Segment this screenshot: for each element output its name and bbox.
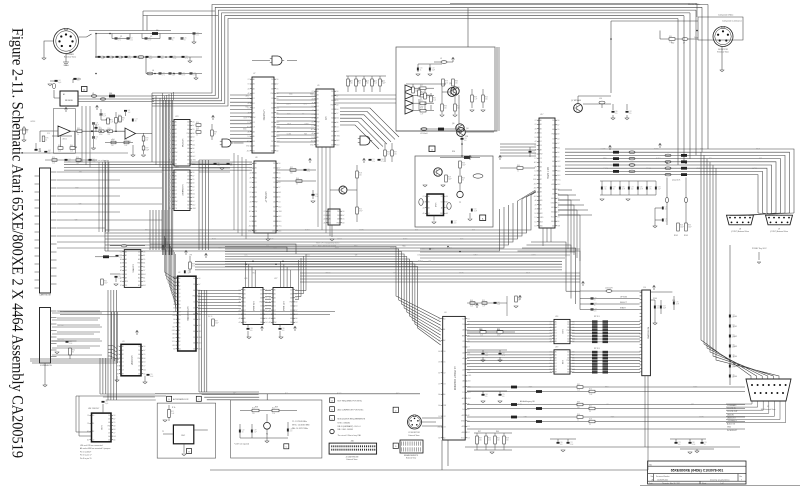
- svg-text:A7: A7: [552, 160, 554, 163]
- svg-text:R6 33: R6 33: [208, 316, 212, 318]
- svg-text:Quad 4.7k: Quad 4.7k: [672, 180, 680, 182]
- svg-text:Q7 MPSA06: Q7 MPSA06: [571, 99, 581, 102]
- svg-text:220: 220: [252, 413, 255, 415]
- svg-text:A1: A1: [540, 123, 542, 126]
- svg-text:U19: U19: [555, 347, 558, 349]
- svg-text:MODULATOR REQUIREMENTS: MODULATOR REQUIREMENTS: [338, 417, 366, 420]
- svg-text:220: 220: [454, 223, 457, 225]
- svg-text:D6: D6: [248, 98, 250, 100]
- svg-text:A7: A7: [331, 130, 333, 133]
- svg-text:R44: R44: [488, 438, 491, 440]
- svg-text:U34 74SC147: U34 74SC147: [88, 408, 99, 410]
- svg-text:.1uF: .1uF: [103, 116, 106, 118]
- svg-text:D3: D3: [337, 215, 339, 217]
- svg-text:R57: R57: [478, 431, 481, 433]
- svg-text:D7: D7: [312, 125, 314, 127]
- svg-text:PAL: 14.18757 MHz: PAL: 14.18757 MHz: [292, 427, 308, 430]
- svg-text:AUD1: AUD1: [305, 253, 310, 256]
- svg-text:C19: C19: [173, 56, 176, 58]
- svg-text:R64: R64: [517, 165, 520, 167]
- svg-text:D5: D5: [462, 375, 464, 377]
- svg-text:D5: D5: [336, 100, 338, 102]
- svg-text:ADD JUMPER W7 FOR NTSC: ADD JUMPER W7 FOR NTSC: [338, 408, 364, 411]
- svg-text:220: 220: [506, 440, 509, 442]
- svg-text:Color: Color: [694, 37, 699, 39]
- svg-text:D0: D0: [540, 133, 542, 135]
- svg-text:D7: D7: [170, 204, 172, 206]
- svg-text:U17: U17: [540, 114, 543, 116]
- svg-text:R82: R82: [577, 384, 580, 386]
- svg-text:RW: RW: [244, 322, 247, 324]
- svg-text:10pF: 10pF: [663, 308, 667, 310]
- svg-text:AN0: AN0: [289, 92, 292, 95]
- svg-text:47uF: 47uF: [182, 75, 186, 77]
- svg-text:O2: O2: [443, 416, 445, 418]
- svg-text:A1: A1: [92, 422, 94, 425]
- svg-text:A13: A13: [551, 206, 554, 209]
- svg-text:A8: A8: [273, 215, 275, 218]
- svg-text:C73: C73: [631, 187, 634, 189]
- svg-text:D2: D2: [175, 141, 177, 143]
- svg-text:A6: A6: [540, 203, 542, 206]
- svg-text:O2: O2: [169, 121, 171, 123]
- svg-text:A0: A0: [540, 119, 542, 122]
- svg-text:O2: O2: [253, 122, 255, 124]
- svg-text:C39: C39: [254, 430, 257, 432]
- svg-text:R11: R11: [171, 411, 174, 413]
- svg-text:D2: D2: [535, 221, 537, 223]
- svg-text:R46: R46: [296, 178, 299, 180]
- svg-text:100: 100: [457, 108, 460, 110]
- svg-text:4050: 4050: [118, 121, 122, 123]
- svg-text:O2: O2: [273, 182, 275, 184]
- svg-text:.1uF: .1uF: [217, 165, 220, 167]
- svg-text:R60: R60: [387, 152, 390, 154]
- svg-text:C49: C49: [594, 309, 597, 311]
- svg-text:CSYN: CSYN: [699, 416, 704, 418]
- svg-text:AUD1: AUD1: [403, 237, 408, 240]
- svg-text:D2: D2: [193, 278, 195, 280]
- svg-text:KR1: KR1: [524, 416, 527, 418]
- svg-text:RP 3.3: RP 3.3: [594, 348, 599, 350]
- svg-text:D4: D4: [192, 201, 194, 203]
- svg-text:A3: A3: [178, 340, 180, 343]
- svg-text:100: 100: [631, 189, 634, 191]
- svg-text:C57: C57: [454, 221, 457, 223]
- svg-text:D6: D6: [187, 201, 189, 203]
- svg-text:The circuit C-Nxx is freq. PAL: The circuit C-Nxx is freq. PAL: [338, 434, 361, 437]
- svg-text:10pF: 10pF: [432, 70, 436, 72]
- svg-text:R62: R62: [104, 281, 107, 283]
- svg-text:C165: C165: [733, 366, 737, 368]
- svg-text:A0: A0: [122, 345, 124, 348]
- svg-text:A8: A8: [271, 130, 273, 133]
- svg-text:CSYN: CSYN: [459, 272, 464, 274]
- svg-text:D1: D1: [557, 207, 559, 209]
- svg-text:10uF: 10uF: [474, 211, 478, 213]
- svg-text:C74: C74: [372, 159, 375, 161]
- svg-text:2.2k: 2.2k: [119, 257, 122, 259]
- svg-text:100: 100: [665, 209, 668, 211]
- svg-text:A0: A0: [244, 288, 246, 291]
- svg-text:CLOCK OUT: CLOCK OUT: [727, 411, 738, 413]
- svg-text:10uF: 10uF: [104, 283, 108, 285]
- svg-text:*C167 not required: *C167 not required: [234, 443, 249, 446]
- svg-text:C94: C94: [658, 187, 661, 189]
- svg-text:10uF: 10uF: [215, 323, 219, 325]
- svg-text:2.2k: 2.2k: [372, 161, 375, 163]
- svg-text:47uF: 47uF: [676, 304, 680, 306]
- svg-text:D3: D3: [317, 114, 319, 116]
- svg-text:C90: C90: [282, 328, 285, 330]
- svg-text:1k: 1k: [196, 135, 198, 137]
- svg-text:C68: C68: [485, 394, 488, 396]
- svg-text:REF: REF: [310, 93, 313, 95]
- svg-text:D7: D7: [192, 190, 194, 192]
- svg-text:A14: A14: [551, 220, 554, 223]
- svg-text:(CONT) External View: (CONT) External View: [770, 230, 788, 233]
- svg-text:O2: O2: [290, 306, 292, 308]
- svg-text:D6: D6: [290, 322, 292, 324]
- svg-text:LUM1: LUM1: [531, 254, 536, 256]
- svg-text:AUDIO IN: AUDIO IN: [727, 423, 736, 426]
- svg-text:C93: C93: [704, 442, 707, 444]
- svg-text:D6: D6: [138, 281, 140, 283]
- svg-text:D5: D5: [295, 298, 297, 300]
- svg-text:2.2k: 2.2k: [387, 154, 390, 156]
- svg-text:C94: C94: [149, 56, 152, 58]
- svg-text:A8: A8: [193, 342, 195, 345]
- svg-text:NOT REQUIRED FOR NTSC: NOT REQUIRED FOR NTSC: [338, 401, 363, 403]
- svg-text:D7: D7: [572, 366, 574, 368]
- svg-text:220: 220: [594, 311, 597, 313]
- svg-text:EXT D0: EXT D0: [58, 311, 64, 313]
- svg-text:D6: D6: [468, 318, 470, 320]
- svg-text:A4: A4: [175, 163, 177, 166]
- svg-text:33: 33: [122, 120, 124, 122]
- svg-text:D0: D0: [92, 439, 94, 441]
- svg-text:D5: D5: [187, 208, 189, 210]
- svg-text:D2: D2: [540, 141, 542, 143]
- svg-text:1k: 1k: [517, 171, 519, 173]
- svg-text:POT0: POT0: [390, 247, 394, 249]
- svg-text:U23: U23: [175, 116, 178, 118]
- svg-text:R60: R60: [496, 431, 499, 433]
- svg-text:D0: D0: [555, 330, 557, 332]
- svg-text:A5: A5: [463, 357, 465, 360]
- svg-text:C24: C24: [130, 38, 133, 40]
- svg-text:RP 3.3: RP 3.3: [594, 316, 599, 318]
- svg-text:O2: O2: [175, 204, 177, 206]
- svg-text:R18: R18: [359, 173, 362, 175]
- svg-text:A4: A4: [443, 437, 445, 440]
- svg-text:D2: D2: [175, 190, 177, 192]
- svg-text:O2: O2: [606, 404, 608, 406]
- svg-text:R70: R70: [146, 138, 149, 140]
- svg-text:PAL B (GERMANY): CH 2+4: PAL B (GERMANY): CH 2+4: [338, 425, 361, 428]
- svg-text:POKEY Key VCC: POKEY Key VCC: [752, 248, 767, 250]
- svg-text:47uF: 47uF: [99, 134, 103, 136]
- svg-text:220: 220: [394, 154, 397, 156]
- svg-text:A10: A10: [540, 225, 543, 228]
- svg-text:A6: A6: [463, 402, 465, 405]
- svg-text:D2: D2: [255, 187, 257, 189]
- svg-text:220: 220: [485, 99, 488, 101]
- svg-text:Composite Luminance: Composite Luminance: [722, 20, 743, 23]
- svg-text:D2: D2: [317, 110, 319, 112]
- svg-text:D1: D1: [175, 137, 177, 139]
- svg-text:A3: A3: [540, 191, 542, 194]
- svg-text:A3: A3: [463, 385, 465, 388]
- svg-text:A7: A7: [317, 144, 319, 147]
- svg-text:D7: D7: [540, 196, 542, 198]
- svg-text:A8: A8: [463, 380, 465, 383]
- svg-text:A4: A4: [540, 165, 542, 168]
- svg-text:RW: RW: [274, 322, 277, 324]
- svg-text:2.2k: 2.2k: [433, 100, 436, 102]
- svg-text:A5: A5: [255, 220, 257, 223]
- svg-text:D4: D4: [552, 193, 554, 195]
- svg-text:A5: A5: [271, 111, 273, 114]
- svg-text:A9: A9: [271, 87, 273, 90]
- svg-text:D7: D7: [276, 103, 278, 105]
- svg-text:External View: External View: [717, 51, 729, 54]
- svg-text:D4: D4: [198, 325, 200, 327]
- svg-text:RW: RW: [193, 296, 196, 298]
- svg-text:33: 33: [613, 189, 615, 191]
- svg-text:O2: O2: [87, 415, 89, 417]
- svg-text:220: 220: [290, 173, 293, 175]
- svg-text:U8 SALLY: U8 SALLY: [264, 192, 267, 203]
- svg-text:C66: C66: [622, 187, 625, 189]
- svg-text:R81: R81: [122, 118, 125, 120]
- svg-text:U8: U8: [255, 157, 257, 159]
- svg-text:RW: RW: [137, 263, 140, 265]
- svg-text:DATA IN: DATA IN: [727, 413, 734, 416]
- svg-text:33: 33: [98, 129, 100, 131]
- svg-text:D1: D1: [555, 333, 557, 335]
- svg-text:A12: A12: [540, 212, 543, 215]
- svg-text:A9: A9: [555, 340, 557, 343]
- svg-text:AUD1: AUD1: [335, 246, 340, 249]
- svg-text:A1: A1: [428, 201, 430, 204]
- svg-text:C49: C49: [127, 110, 130, 112]
- svg-text:RW: RW: [187, 183, 190, 185]
- svg-text:A4: A4: [138, 273, 140, 276]
- svg-text:RW: RW: [253, 117, 256, 119]
- svg-text:D7: D7: [178, 345, 180, 347]
- svg-text:NTSC: 14.31818 MHz: NTSC: 14.31818 MHz: [292, 425, 310, 427]
- svg-text:D6: D6: [446, 196, 448, 198]
- svg-text:D5: D5: [170, 144, 172, 146]
- svg-text:KR1: KR1: [304, 103, 307, 105]
- svg-text:C80: C80: [640, 187, 643, 189]
- svg-text:A4: A4: [317, 132, 319, 135]
- svg-text:10pF: 10pF: [146, 150, 150, 152]
- svg-text:A2: A2: [274, 297, 276, 300]
- svg-text:D6: D6: [271, 117, 273, 119]
- svg-text:100: 100: [161, 58, 164, 60]
- svg-text:A0: A0: [552, 225, 554, 228]
- svg-text:A4: A4: [187, 143, 189, 146]
- svg-text:C160: C160: [733, 316, 737, 318]
- svg-text:A4: A4: [255, 215, 257, 218]
- svg-text:.1uF: .1uF: [127, 112, 130, 114]
- svg-text:A1: A1: [244, 293, 246, 296]
- svg-text:A4: A4: [273, 191, 275, 194]
- svg-text:33: 33: [184, 40, 186, 42]
- svg-text:4.7k: 4.7k: [48, 153, 51, 155]
- svg-text:1k: 1k: [46, 140, 48, 142]
- svg-text:O2: O2: [175, 156, 177, 158]
- svg-text:RW: RW: [462, 335, 465, 337]
- svg-text:D6: D6: [250, 182, 252, 184]
- svg-text:RW: RW: [759, 158, 762, 160]
- svg-text:A1: A1: [329, 214, 331, 217]
- svg-text:R37: R37: [420, 85, 423, 87]
- svg-text:10pF: 10pF: [149, 58, 153, 60]
- svg-text:L4: L4: [152, 70, 154, 72]
- svg-text:4.7k: 4.7k: [445, 83, 448, 85]
- svg-text:A9: A9: [567, 356, 569, 359]
- svg-text:AUD1: AUD1: [212, 237, 217, 240]
- svg-text:R50: R50: [497, 329, 500, 331]
- svg-text:AUD1: AUD1: [656, 157, 661, 160]
- svg-text:A5: A5: [540, 170, 542, 173]
- svg-text:D5: D5: [192, 179, 194, 181]
- svg-text:D1: D1: [244, 306, 246, 308]
- svg-text:C72: C72: [570, 442, 573, 444]
- svg-text:A9: A9: [441, 206, 443, 209]
- svg-text:A5: A5: [253, 135, 255, 138]
- svg-text:D6: D6: [170, 186, 172, 188]
- svg-text:L7: L7: [683, 43, 685, 45]
- svg-text:OPTION: OPTION: [620, 297, 628, 299]
- svg-text:47uF: 47uF: [173, 58, 177, 60]
- svg-text:10uF: 10uF: [119, 58, 123, 60]
- svg-text:220: 220: [615, 113, 618, 115]
- svg-text:D4: D4: [250, 221, 252, 223]
- svg-text:.1uF: .1uF: [532, 153, 535, 155]
- svg-text:U4: U4: [444, 312, 446, 314]
- svg-text:RW: RW: [304, 133, 307, 135]
- svg-text:CS: CS: [169, 176, 171, 178]
- svg-text:R69: R69: [192, 264, 195, 266]
- svg-text:C162: C162: [733, 336, 737, 338]
- svg-text:COL: COL: [148, 238, 152, 240]
- svg-text:4.7k: 4.7k: [118, 40, 121, 42]
- svg-text:220: 220: [77, 80, 80, 82]
- svg-text:A0: A0: [175, 120, 177, 123]
- svg-text:INTERRUPT: INTERRUPT: [727, 430, 738, 432]
- svg-text:D7: D7: [170, 156, 172, 158]
- svg-text:CS: CS: [249, 168, 251, 170]
- svg-text:CS: CS: [422, 202, 424, 204]
- svg-text:4.7k: 4.7k: [381, 161, 384, 163]
- svg-text:D5: D5: [271, 127, 273, 129]
- svg-text:RW: RW: [271, 93, 274, 95]
- svg-text:R62: R62: [671, 43, 674, 45]
- svg-text:D4: D4: [468, 364, 470, 366]
- svg-text:D5: D5: [250, 192, 252, 194]
- svg-text:2.2k: 2.2k: [70, 151, 73, 153]
- svg-text:AUD1: AUD1: [518, 403, 523, 406]
- svg-text:R37: R37: [479, 438, 482, 440]
- svg-text:D6: D6: [113, 415, 115, 417]
- svg-text:D1: D1: [443, 362, 445, 364]
- svg-text:33: 33: [518, 300, 520, 302]
- svg-text:A1: A1: [443, 328, 445, 331]
- svg-text:D6: D6: [276, 79, 278, 81]
- svg-text:D3: D3: [535, 226, 537, 228]
- svg-text:D0: D0: [329, 223, 331, 225]
- svg-text:D3: D3: [540, 145, 542, 147]
- svg-text:D2: D2: [187, 172, 189, 174]
- svg-text:A2: A2: [443, 339, 445, 342]
- svg-text:A5: A5: [138, 277, 140, 280]
- svg-text:C103078-001: C103078-001: [657, 479, 668, 481]
- svg-text:D3: D3: [193, 284, 195, 286]
- svg-text:R86: R86: [455, 81, 458, 83]
- svg-text:POT0: POT0: [654, 149, 658, 151]
- svg-text:.1uF: .1uF: [92, 161, 95, 163]
- svg-text:C59: C59: [613, 187, 616, 189]
- svg-text:C61: C61: [58, 80, 61, 82]
- svg-text:D6: D6: [273, 202, 275, 204]
- svg-text:1k: 1k: [366, 81, 368, 83]
- svg-text:O2: O2: [438, 318, 440, 320]
- svg-text:A10: A10: [462, 431, 465, 434]
- svg-text:D7: D7: [271, 141, 273, 143]
- svg-text:1k: 1k: [420, 70, 422, 72]
- svg-text:D4: D4: [192, 152, 194, 154]
- svg-text:R27: R27: [196, 129, 199, 131]
- svg-text:220: 220: [657, 308, 660, 310]
- svg-text:Q4: Q4: [466, 128, 468, 130]
- svg-text:C54: C54: [193, 73, 196, 75]
- svg-text:D0: D0: [125, 263, 127, 265]
- svg-text:A3: A3: [271, 135, 273, 138]
- svg-text:AUD1: AUD1: [447, 246, 452, 249]
- svg-text:D6: D6: [192, 121, 194, 123]
- svg-text:100: 100: [678, 444, 681, 446]
- svg-text:Drawn by: pro-phantomas: Drawn by: pro-phantomas: [710, 478, 730, 481]
- svg-text:A0: A0: [428, 195, 430, 198]
- svg-text:AN0: AN0: [79, 170, 82, 173]
- svg-text:When LP is swapped by device: When LP is swapped by device: [316, 243, 339, 245]
- svg-text:O2: O2: [331, 109, 333, 111]
- svg-text:4.7k: 4.7k: [162, 75, 165, 77]
- svg-text:AUD1: AUD1: [305, 228, 310, 231]
- svg-text:R38: R38: [474, 97, 477, 99]
- svg-text:33: 33: [594, 300, 596, 302]
- svg-text:COMMAND: COMMAND: [727, 404, 737, 407]
- svg-text:R25: R25: [359, 209, 362, 211]
- svg-text:L2 100uH: L2 100uH: [420, 133, 428, 135]
- svg-text:R77: R77: [146, 148, 149, 150]
- svg-text:U1 MMU: U1 MMU: [132, 264, 134, 273]
- svg-text:D2: D2: [337, 211, 339, 213]
- svg-text:R102: R102: [674, 235, 678, 237]
- svg-text:A5: A5: [552, 151, 554, 154]
- svg-text:D2: D2: [138, 346, 140, 348]
- svg-text:D3: D3: [108, 419, 110, 421]
- svg-text:C35: C35: [95, 137, 98, 139]
- svg-text:D1: D1: [253, 98, 255, 100]
- svg-text:A5: A5: [178, 322, 180, 325]
- svg-text:R45: R45: [485, 97, 488, 99]
- svg-text:2.2k: 2.2k: [58, 151, 61, 153]
